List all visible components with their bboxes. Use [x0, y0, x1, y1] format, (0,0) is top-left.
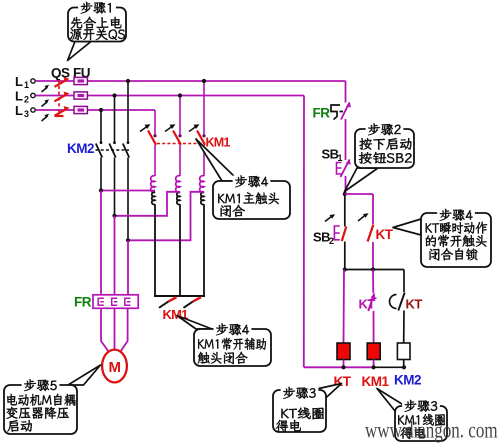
svg-text:KT: KT [376, 227, 394, 242]
wire L2 phase bus [36, 95, 305, 97]
svg-text:SB: SB [313, 230, 330, 245]
transformer T winding1 upper (magenta loops) [151, 176, 155, 193]
contactor KM1 star-point contacts [154, 296, 205, 322]
wire KM1 coil branch upper [372, 270, 374, 294]
callout step3 KT coil [273, 384, 342, 433]
wire winding1 bottom [154, 204, 156, 296]
svg-text:KM1: KM1 [362, 374, 390, 389]
wire bottom rail magenta [304, 366, 374, 368]
svg-text:FR: FR [74, 295, 92, 310]
callout step4 KM1 main [196, 139, 290, 219]
svg-text:FR: FR [313, 106, 331, 121]
callout step3 KM1 coil [377, 389, 447, 442]
label KT coil [334, 374, 352, 389]
svg-text:KM2: KM2 [394, 373, 421, 388]
contactor KM1 main contacts (NO, 3 poles) [140, 124, 230, 149]
wire KM2 pole3 lower [127, 158, 129, 241]
wire FR to SB1 [345, 119, 347, 160]
thermal relay FR NC contact [313, 102, 352, 121]
svg-text:1: 1 [24, 80, 29, 90]
svg-text:L: L [15, 103, 23, 118]
motor M [102, 350, 127, 383]
wire KT contact to KM2 coil [403, 311, 405, 344]
svg-text:KT: KT [406, 297, 423, 312]
node A junction [343, 192, 347, 196]
wire KM2 pole1 lower [100, 158, 102, 191]
svg-text:M: M [109, 359, 122, 376]
wire left control rail [303, 96, 305, 368]
wire KM1 pole1 mid [154, 145, 156, 176]
callout step5 (motor start) [4, 365, 101, 434]
transformer T winding1 lower (black loops) [152, 192, 155, 204]
svg-text:1: 1 [338, 153, 343, 163]
wire node B to KM2 branch drop [403, 270, 405, 293]
wire KT branch lower [372, 242, 374, 270]
relay contact KT self-lock (NO) [358, 213, 394, 242]
transformer T winding3 upper (magenta loops) [200, 176, 204, 193]
thermal relay FR heater elements [74, 295, 138, 310]
wire KM1 pole3 upper [202, 79, 206, 136]
timer contact KT (delayed NO, on KM2 branch) [390, 293, 423, 312]
contactor KM2 main contacts (NO, 3 poles) [67, 141, 129, 158]
svg-text:3: 3 [24, 109, 29, 119]
wire control rail right drop [345, 81, 347, 103]
svg-text:2: 2 [24, 95, 29, 105]
wire KT branch upper [372, 194, 374, 224]
wire node B bus [343, 267, 404, 271]
callout step2 (press SB2) [345, 123, 415, 191]
callout step4 KM1 aux [177, 316, 271, 367]
coil KM2 [397, 343, 410, 360]
button SB2 (NO start) [313, 214, 346, 246]
wire FR to motor phase2 [114, 216, 116, 350]
wire tap3 to KM2 pole3 [126, 192, 204, 243]
wire KM1 pole2 upper [178, 93, 182, 135]
transformer T winding3 lower (black loops) [201, 192, 204, 204]
label KM2 coil [394, 373, 421, 388]
svg-text:KM1: KM1 [206, 136, 231, 150]
wire tap2 to KM2 pole2 [112, 192, 180, 218]
transformer T winding2 lower (black loops) [177, 192, 180, 204]
svg-text:KT: KT [359, 297, 376, 312]
wire KM1 coil bottom [373, 360, 375, 368]
svg-text:KM2: KM2 [67, 141, 94, 156]
switch QS (3-pole knife switch with linkage) [42, 66, 71, 122]
wire winding2 bottom [179, 204, 181, 296]
fuse FU (3x) [73, 66, 90, 114]
node L2 terminal [15, 89, 35, 105]
wire bottom rail black [341, 365, 406, 369]
node L3 terminal [15, 103, 35, 119]
wire FR to motor phase1 [101, 191, 109, 352]
wire SB1 to node A [345, 176, 347, 194]
wire KM2 pole3 upper [126, 79, 130, 142]
svg-text:L: L [15, 89, 23, 104]
node L1 terminal [15, 74, 35, 90]
wire L1 phase bus [36, 80, 346, 82]
svg-text:www.diangon. com: www.diangon. com [365, 418, 498, 443]
svg-text:2: 2 [329, 236, 334, 246]
wire tap1 to KM2 pole1 [99, 188, 155, 192]
callout step1 (close QS) [68, 2, 127, 61]
callout step4 KT self-lock [393, 208, 491, 268]
button SB1 (NC stop) [322, 147, 351, 178]
wire KT contact to KM1 coil [373, 311, 375, 343]
wire node A to KT branch [345, 193, 373, 195]
coil KM1 [367, 343, 380, 360]
svg-text:SB: SB [322, 147, 339, 162]
wire SB2 branch upper [344, 194, 346, 227]
wire SB2 branch lower [344, 242, 346, 270]
wire node B to KT coil [343, 270, 346, 344]
wire FR to motor phase3 [121, 240, 129, 351]
coil KT [337, 343, 350, 360]
wire KM1 pole1 upper [154, 110, 156, 136]
timer contact KT (delayed, on KM1 branch) [359, 293, 377, 311]
wire KT coil bottom [343, 360, 345, 368]
wire KM2 pole2 upper [112, 93, 116, 142]
wire KM2 pole2 lower [114, 158, 116, 216]
wire KM2 coil bottom [403, 360, 405, 368]
wire KM1 pole2 mid [179, 145, 181, 176]
label KM1 coil [362, 374, 390, 389]
watermark www.diangon.com [365, 418, 498, 443]
transformer T winding2 upper (magenta loops) [176, 176, 180, 193]
wire winding3 bottom [203, 204, 205, 296]
svg-text:L: L [15, 74, 23, 89]
wire L3 phase bus [36, 109, 156, 111]
wire KM2 pole1 upper [99, 108, 103, 142]
wire KM1 pole3 mid [203, 145, 205, 176]
